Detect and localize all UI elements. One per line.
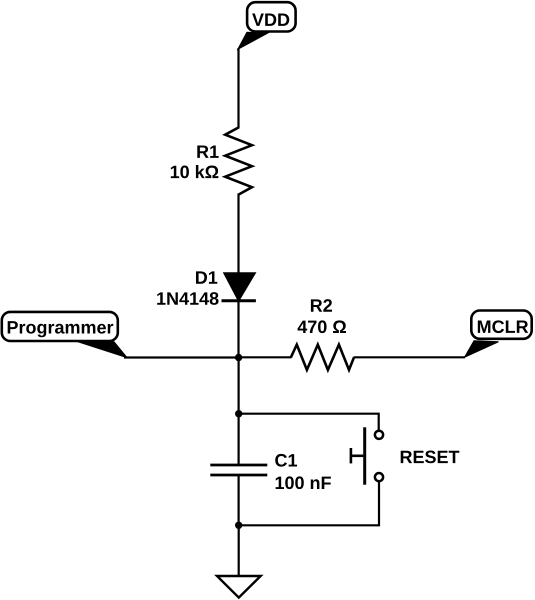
value 100 nF bbox=[276, 476, 331, 489]
pushbutton SW1 bbox=[351, 427, 383, 484]
label R2 bbox=[311, 299, 332, 312]
node C junction bbox=[235, 522, 242, 529]
wire node B to switch top bbox=[239, 414, 379, 430]
wire node C to ground bbox=[238, 525, 240, 576]
wire Programmer to node A bbox=[124, 356, 239, 358]
flag VDD bbox=[238, 2, 296, 49]
wire node A to R2 bbox=[239, 356, 292, 358]
capacitor C1 bbox=[210, 465, 267, 475]
wire node A to node B bbox=[238, 358, 240, 466]
ground bbox=[217, 576, 261, 598]
label C1 bbox=[275, 454, 297, 467]
wire VDD to R1 bbox=[237, 48, 239, 129]
diode D1 bbox=[222, 273, 256, 301]
wire R2 to MCLR bbox=[354, 356, 466, 358]
resistor R2 bbox=[291, 345, 354, 370]
node B junction bbox=[235, 410, 242, 417]
wire D1 to node A bbox=[237, 301, 239, 359]
wire switch bottom to node C bbox=[239, 482, 379, 526]
resistor R1 bbox=[225, 128, 252, 195]
value 1N4148 bbox=[157, 292, 218, 305]
label R1 bbox=[197, 146, 218, 158]
label RESET bbox=[401, 451, 460, 464]
flag MCLR bbox=[465, 311, 532, 358]
node A junction bbox=[235, 354, 242, 361]
wire R1 to D1 bbox=[237, 194, 239, 275]
value 470 Ω bbox=[298, 320, 346, 333]
wire C1 to node C bbox=[238, 475, 240, 526]
flag Programmer bbox=[2, 312, 127, 358]
label D1 bbox=[196, 271, 217, 283]
value 10 kΩ bbox=[171, 165, 219, 178]
